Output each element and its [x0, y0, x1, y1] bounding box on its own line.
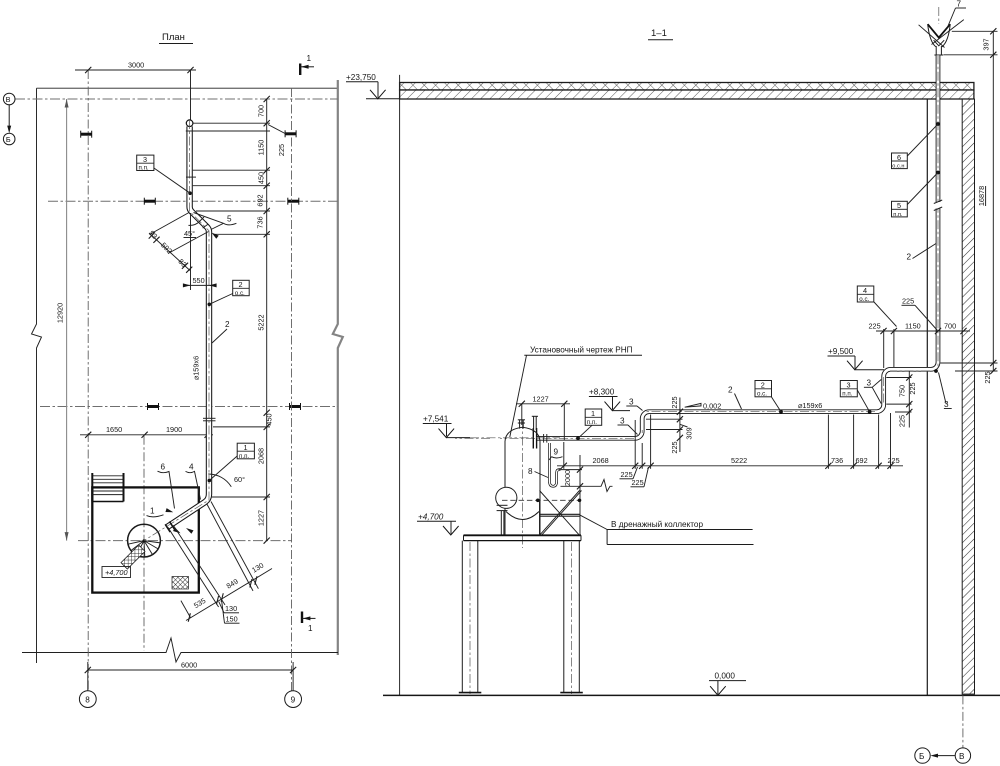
axis bar tick on axis 8: [81, 131, 92, 138]
tank centre vertical axis: [143, 436, 145, 651]
svg-text:45°: 45°: [184, 229, 195, 238]
flange at tank: [170, 522, 175, 530]
dot on long run left: [779, 410, 783, 414]
svg-text:2: 2: [728, 386, 733, 395]
chain extensions: [563, 442, 565, 469]
axis bar ticks on line 406: [148, 403, 159, 410]
label box 5 п.п.: [892, 201, 908, 217]
dim 6000: [88, 669, 293, 671]
vent centreline above roof: [938, 7, 940, 24]
elbow weld ticks on diagonal: [199, 217, 204, 222]
collector double line: [541, 513, 580, 515]
svg-text:692: 692: [856, 456, 868, 465]
leader to drain text: [580, 515, 608, 530]
svg-text:9: 9: [291, 695, 296, 704]
joint ticks lower: [203, 417, 216, 419]
tank circle: [128, 524, 161, 557]
svg-text:225: 225: [898, 415, 907, 427]
label box 1 п.п. section: [585, 409, 602, 425]
manhole flanges: [497, 504, 508, 506]
svg-text:Б: Б: [6, 135, 11, 144]
svg-text:1: 1: [150, 507, 155, 516]
pipe centreline: [144, 120, 209, 541]
svg-text:5: 5: [227, 215, 232, 224]
45 deg arc and text: [188, 221, 199, 225]
label box 2 о.с. section: [755, 381, 772, 397]
left boundary wall line: [399, 75, 401, 695]
svg-text:225: 225: [908, 382, 917, 394]
diagonal extension lines lower right: [168, 527, 219, 607]
grid circles Б В bottom right: [962, 695, 964, 748]
dim chain top right 225/1150/700: [876, 330, 970, 332]
arrow from В to Б: [8, 105, 10, 128]
diagonal chain line: [149, 233, 190, 271]
svg-text:1150: 1150: [905, 322, 921, 331]
svg-text:+4,700: +4,700: [418, 513, 444, 522]
svg-text:2: 2: [225, 320, 230, 329]
svg-text:5222: 5222: [731, 456, 747, 465]
svg-text:о.с.н: о.с.н: [892, 164, 904, 170]
arrow on ext 234 at bend: [210, 231, 218, 239]
tank radial fan: [128, 541, 160, 557]
riser pipe vertical: [537, 55, 938, 438]
hatched pad strip: [121, 545, 145, 569]
plan pipe vertical upper with bends: [168, 126, 210, 526]
svg-text:225: 225: [632, 478, 644, 487]
dim 3000 line: [75, 69, 196, 71]
riser dots: [936, 122, 940, 126]
svg-text:6: 6: [161, 463, 166, 472]
svg-text:1: 1: [591, 409, 595, 418]
svg-text:п.п.: п.п.: [587, 419, 597, 426]
svg-text:397: 397: [982, 38, 991, 50]
circle grid Б: [3, 133, 15, 145]
svg-text:3: 3: [944, 400, 949, 409]
platform deck: [464, 534, 582, 536]
grid axis В horizontal: [15, 98, 338, 100]
extension lines pipe to chain: [193, 122, 270, 124]
dim 750/225 chain at jog: [908, 371, 910, 428]
leader 225 top: [268, 125, 286, 135]
svg-text:60°: 60°: [234, 475, 245, 484]
ladder rungs: [92, 475, 123, 477]
vent cap: [928, 24, 951, 37]
diagonal dim cluster upper: ext lines from bends: [150, 213, 190, 235]
vertical axis extension below bend1: [190, 213, 192, 290]
X brace: [540, 491, 582, 536]
circle grid 8: [79, 691, 96, 708]
ext lines for 397/16878: [952, 30, 998, 32]
svg-text:692: 692: [256, 194, 265, 206]
svg-text:2: 2: [907, 253, 912, 262]
svg-text:1: 1: [308, 624, 313, 633]
circle grid В: [3, 93, 15, 105]
axis bar tick on axis 9: [285, 130, 296, 137]
weld tick mid: [186, 176, 196, 178]
svg-text:2: 2: [239, 280, 243, 289]
lower diagonal dim chain 535/849/130: [186, 569, 272, 621]
svg-text:5: 5: [897, 201, 901, 210]
manhole circle: [496, 487, 517, 508]
ext lines up from jog: [883, 329, 885, 368]
grid axis 8 vertical: [87, 70, 89, 691]
svg-text:1–1: 1–1: [651, 28, 667, 39]
svg-text:225: 225: [869, 322, 881, 331]
svg-text:6000: 6000: [181, 661, 197, 670]
svg-text:1227: 1227: [257, 510, 266, 526]
svg-text:3: 3: [620, 417, 625, 426]
ladder rails: [91, 473, 93, 502]
svg-text:+4,700: +4,700: [105, 568, 128, 577]
vessel dished bottom: [506, 512, 539, 520]
svg-text:150: 150: [226, 615, 238, 624]
svg-text:450: 450: [265, 413, 274, 425]
section mark 1 bottom: [301, 612, 303, 624]
svg-text:п.п.: п.п.: [842, 390, 852, 397]
section mark 1 top: [299, 64, 301, 76]
left leg: [461, 541, 463, 693]
svg-text:2068: 2068: [593, 456, 609, 465]
grid axis middle horizontal: [40, 406, 338, 408]
dim chain 225/309/225 at left jog: [679, 398, 681, 453]
vessel dome: [505, 427, 540, 441]
drain U seal pipe: [550, 443, 561, 486]
svg-text:+8,300: +8,300: [589, 388, 615, 397]
leader dot o.s.2: [208, 303, 212, 307]
label box 3 п.п.: [840, 381, 857, 397]
dim chain right vertical line: [266, 99, 268, 541]
dim 3000 right extension: [190, 70, 192, 120]
dim 1227: [516, 403, 570, 405]
svg-text:3: 3: [867, 379, 872, 388]
svg-text:16878: 16878: [977, 186, 986, 206]
svg-text:5222: 5222: [257, 314, 266, 330]
right wall hatched band: [962, 99, 974, 694]
top stub right: [533, 417, 535, 431]
svg-text:п.п.: п.п.: [893, 212, 903, 218]
svg-text:2068: 2068: [257, 448, 266, 464]
plan right boundary thick grey: [333, 80, 343, 655]
chain ticks: [264, 96, 270, 102]
grid axis 9 vertical: [291, 88, 293, 691]
roof upper band crosshatch: [400, 83, 974, 91]
floor line 0.000: [383, 694, 1000, 696]
svg-text:п.п.: п.п.: [139, 165, 149, 172]
label box 1 п.п.: [237, 443, 254, 459]
grid axis Б horizontal (lower): [48, 200, 338, 202]
svg-text:130: 130: [225, 604, 237, 613]
svg-text:В: В: [6, 95, 11, 104]
plan bottom boundary with break: [22, 638, 338, 662]
title underline: [159, 43, 193, 45]
svg-text:750: 750: [897, 385, 906, 397]
inner column line: [926, 99, 928, 695]
manhole stub to deck: [500, 511, 502, 536]
bottom dim chain y=465.8: [557, 465, 903, 467]
elevation box +4,700: [102, 567, 131, 578]
pipe centreline dash-dot: [455, 55, 938, 438]
svg-text:1900: 1900: [166, 425, 182, 434]
vent cap thin diagonals: [919, 20, 964, 48]
svg-text:3: 3: [143, 155, 147, 164]
svg-text:1227: 1227: [533, 395, 549, 404]
leader dot p.p.1: [208, 479, 212, 483]
label 4 о.с. box: [857, 286, 874, 302]
svg-text:7: 7: [957, 0, 962, 9]
svg-text:1150: 1150: [257, 140, 266, 156]
svg-text:225: 225: [277, 144, 286, 156]
svg-text:0,000: 0,000: [715, 672, 736, 681]
dot on vessel run: [576, 436, 580, 440]
svg-text:В: В: [959, 752, 965, 761]
label box 2 о.с.: [233, 280, 250, 295]
svg-text:736: 736: [831, 456, 843, 465]
leader dot p.p.3: [188, 191, 192, 195]
svg-text:225: 225: [670, 441, 679, 453]
vessel axis through dome (+7,541 ref): [470, 437, 560, 439]
svg-text:8: 8: [528, 467, 533, 476]
svg-text:9: 9: [554, 448, 559, 457]
svg-text:1: 1: [244, 443, 248, 452]
dim 12920 vertical line: [66, 99, 68, 541]
svg-text:3: 3: [629, 398, 634, 407]
svg-text:1650: 1650: [106, 425, 122, 434]
dim 550: [183, 284, 216, 286]
svg-text:⌀159х6: ⌀159х6: [798, 401, 822, 410]
svg-text:3000: 3000: [128, 61, 144, 70]
svg-text:+9,500: +9,500: [828, 347, 854, 356]
svg-text:План: План: [162, 32, 185, 43]
svg-text:⌀159х6: ⌀159х6: [192, 356, 201, 380]
svg-text:0,002: 0,002: [703, 402, 721, 411]
svg-text:4: 4: [189, 463, 194, 472]
brace panel left vertical: [539, 500, 541, 535]
svg-text:309: 309: [684, 427, 693, 439]
small arrows on pipe near flange: [173, 528, 182, 535]
svg-text:о.с.: о.с.: [859, 296, 869, 303]
plan left boundary line: [32, 88, 42, 663]
dim 2000: [559, 469, 583, 471]
svg-text:о.с.: о.с.: [757, 390, 767, 397]
circle grid 9: [285, 691, 302, 708]
svg-text:2: 2: [761, 381, 765, 390]
svg-text:+7,541: +7,541: [423, 415, 449, 424]
vessel centreline: [522, 420, 524, 548]
svg-text:225: 225: [902, 297, 914, 306]
svg-text:2000: 2000: [563, 470, 572, 486]
svg-text:700: 700: [257, 105, 266, 117]
platform square thick: [92, 487, 199, 592]
svg-text:550: 550: [193, 276, 205, 285]
svg-text:п.п.: п.п.: [239, 453, 249, 460]
60 deg bend area: arc + text: [208, 474, 231, 487]
vessel shell: [504, 442, 506, 536]
svg-text:225: 225: [670, 396, 679, 408]
svg-text:450: 450: [257, 172, 266, 184]
svg-text:3: 3: [847, 381, 851, 390]
svg-text:8: 8: [85, 695, 90, 704]
crosshatch vent rect: [172, 577, 189, 590]
tank centre horizontal axis: [78, 540, 292, 542]
dot on long run right: [868, 410, 872, 414]
svg-text:736: 736: [256, 216, 265, 228]
label box 3 п.п.: [137, 155, 154, 170]
dashed drain header: [502, 499, 580, 501]
svg-text:4: 4: [863, 286, 867, 295]
svg-text:Б: Б: [919, 752, 924, 761]
axis bar ticks on line 201: [144, 198, 155, 205]
elbow dot at riser top of jog: [934, 369, 938, 373]
svg-text:6: 6: [897, 153, 901, 162]
roof lower band hatch: [400, 90, 974, 99]
pipe cap circle top: [186, 120, 193, 127]
svg-text:1: 1: [307, 54, 312, 63]
svg-text:+23,750: +23,750: [346, 73, 376, 82]
label box 6 о.с.н: [892, 153, 908, 169]
svg-text:12920: 12920: [56, 303, 65, 323]
dim 16878 vertical right: [992, 31, 994, 363]
plan top boundary line: [37, 87, 338, 89]
svg-text:700: 700: [944, 322, 956, 331]
weld tick top: [186, 130, 196, 132]
svg-text:о.с.: о.с.: [235, 290, 245, 297]
svg-text:В дренажный коллектор: В дренажный коллектор: [611, 520, 703, 529]
svg-text:225: 225: [888, 456, 900, 465]
dim 1650 1900: [80, 434, 213, 436]
top nozzle valve left: [519, 420, 521, 429]
vessel flange pair: [532, 428, 534, 449]
tank centre dot: [143, 539, 146, 542]
svg-text:Установочный чертеж РНП: Установочный чертеж РНП: [530, 346, 633, 355]
riser joint break: [934, 202, 943, 209]
vent flange tick: [934, 54, 943, 56]
right leg: [563, 541, 565, 693]
vent neck: [935, 46, 937, 55]
